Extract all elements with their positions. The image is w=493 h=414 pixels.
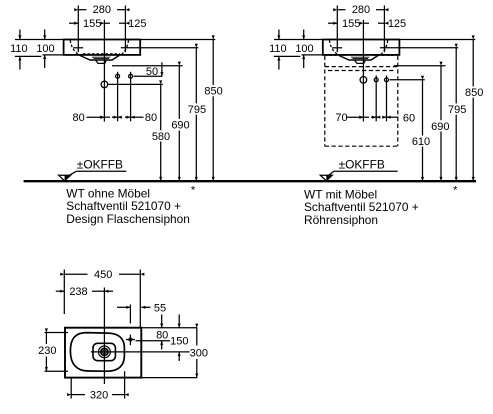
drain hole circle right	[360, 77, 367, 84]
svg-text:238: 238	[69, 286, 87, 298]
drain hole circle left	[101, 81, 108, 88]
svg-text:60: 60	[403, 113, 415, 125]
rim bottom reference line right	[394, 65, 446, 67]
dim 690 line right	[440, 66, 442, 121]
plan drain inner circle	[101, 348, 108, 355]
svg-text:280: 280	[93, 4, 111, 16]
dim 580 line	[160, 84, 162, 130]
svg-text:110: 110	[269, 43, 287, 55]
svg-text:610: 610	[412, 136, 430, 148]
100 bottom tick	[44, 55, 46, 68]
tap hole cross right arm + 795 reference line	[121, 47, 199, 49]
hole axes right	[376, 76, 386, 122]
100 top tick	[44, 30, 46, 40]
dim 690 line	[178, 66, 180, 119]
dim 850 line right	[472, 40, 474, 87]
plan top edge extension	[141, 327, 197, 329]
level symbol left: underline	[76, 170, 126, 172]
svg-text:230: 230	[38, 345, 56, 357]
svg-text:Schaftventil 521070 +: Schaftventil 521070 +	[304, 200, 419, 214]
level triangle left filled half	[65, 175, 71, 181]
bowl hidden arc left-left	[70, 40, 80, 55]
svg-text:155: 155	[83, 18, 101, 30]
450 left tick	[63, 270, 65, 315]
plan bowl outline	[70, 333, 124, 372]
dim 230 bottom extension	[45, 370, 69, 372]
svg-text:850: 850	[465, 87, 483, 99]
dim 55 arrows	[117, 306, 130, 308]
overflow hole 1 left	[116, 74, 120, 78]
dim 320	[71, 394, 85, 396]
svg-text:80: 80	[72, 112, 84, 124]
plan dim texts	[38, 269, 208, 401]
siphon hole 1 right	[374, 78, 378, 82]
hole 1 axis	[117, 72, 119, 122]
110/100 top reference line right	[274, 39, 323, 41]
svg-text:110: 110	[10, 43, 28, 55]
rim bottom reference line	[112, 65, 183, 67]
svg-text:125: 125	[128, 18, 146, 30]
extension line x=78.3	[77, 6, 79, 53]
overflow hole 2 left	[129, 74, 133, 78]
dim 300 plan	[196, 328, 198, 346]
svg-text:320: 320	[90, 389, 108, 401]
320 left tick	[70, 378, 72, 399]
svg-text:450: 450	[94, 269, 112, 281]
svg-text:Röhrensiphon: Röhrensiphon	[304, 213, 378, 227]
dim 280 left	[78, 9, 86, 11]
dim 280 right	[337, 9, 345, 11]
plan basin rectangle	[65, 328, 141, 378]
100 top tick right	[303, 30, 305, 40]
svg-text:155: 155	[342, 18, 360, 30]
dim 50 tick	[161, 62, 163, 76]
svg-text:280: 280	[352, 4, 370, 16]
110 top tick right	[278, 30, 280, 40]
level symbol left: diagonal	[67, 171, 76, 177]
110 bottom reference line	[15, 55, 42, 57]
drain reference line	[108, 83, 163, 85]
holes reference line	[134, 75, 163, 77]
plan tap cross circle	[129, 338, 132, 341]
dim 125 arrows	[104, 22, 110, 24]
level symbol right: triangle	[320, 175, 332, 181]
drain recess lines left	[92, 57, 111, 58]
svg-text:Design Flaschensiphon: Design Flaschensiphon	[66, 212, 190, 226]
svg-text:*: *	[191, 185, 196, 197]
svg-text:690: 690	[171, 120, 189, 132]
dim 80-80 line	[87, 116, 105, 118]
100 bottom tick right	[303, 55, 305, 68]
svg-text:300: 300	[190, 347, 208, 359]
450 right tick	[139, 270, 141, 328]
extension line x=337.3	[336, 6, 338, 53]
basin top reference line right	[399, 39, 475, 41]
hidden bottom edge dashes	[325, 54, 396, 56]
dim 230 top extension	[45, 332, 69, 334]
plan tap cross vertical	[129, 335, 131, 346]
svg-text:150: 150	[170, 336, 188, 348]
extension line x=384.4	[383, 6, 385, 53]
svg-text:125: 125	[388, 18, 406, 30]
plan drain recess	[93, 343, 115, 360]
hole 2 axis	[130, 72, 132, 122]
svg-text:70: 70	[335, 112, 347, 124]
plan bottom edge extension	[141, 377, 197, 379]
svg-text:*: *	[453, 185, 458, 197]
110 bottom tick right	[278, 56, 280, 69]
basin outline left	[64, 40, 141, 55]
svg-text:55: 55	[154, 303, 166, 315]
basin top reference line	[140, 39, 215, 41]
drain boss right	[355, 60, 366, 63]
100 bottom reference line	[43, 54, 64, 56]
bowl underside trapezoid left	[80, 55, 120, 60]
110 top tick	[19, 30, 21, 40]
100 bottom reference line right	[302, 54, 323, 56]
level symbol left: triangle	[59, 175, 71, 181]
dim 150 plan arrows	[178, 315, 180, 328]
svg-text:850: 850	[204, 86, 222, 98]
plan cross level extension	[136, 340, 171, 342]
plan drain outer circle	[99, 346, 111, 358]
dim 70-60 line	[346, 116, 363, 118]
svg-text:50: 50	[146, 66, 158, 78]
floor line	[24, 180, 476, 182]
svg-text:Schaftventil 521070 +: Schaftventil 521070 +	[66, 199, 181, 213]
dim 155 outside arrow right	[328, 22, 337, 24]
svg-text:795: 795	[448, 104, 466, 116]
dim 155 outside arrow	[69, 22, 78, 24]
basin outline right	[323, 40, 400, 55]
drain boss left	[96, 60, 107, 63]
svg-text:690: 690	[431, 121, 449, 133]
bowl underside trapezoid right	[339, 55, 379, 60]
svg-text:100: 100	[36, 43, 54, 55]
dim 80 plan arrows	[161, 315, 163, 328]
plan tap cross horizontal	[126, 339, 135, 341]
dim 238 outside arrows	[56, 290, 65, 292]
centre line left	[103, 20, 105, 122]
plan vertical centre line	[103, 288, 105, 385]
level triangle right filled half	[326, 175, 332, 181]
drain recess lines right	[351, 57, 370, 58]
110 bottom tick	[19, 56, 21, 69]
dim 125 arrows right	[363, 22, 369, 24]
svg-text:795: 795	[188, 104, 206, 116]
plan tap cross extension tick	[129, 305, 131, 324]
svg-text:80: 80	[145, 112, 157, 124]
110 bottom reference line right	[274, 55, 301, 57]
320 right tick	[124, 371, 126, 398]
svg-text:±OKFFB: ±OKFFB	[77, 157, 123, 171]
dim 795 line	[195, 48, 197, 104]
110/100 top reference line	[15, 39, 64, 41]
dim 450	[64, 273, 87, 275]
level symbol right: underline	[334, 170, 398, 172]
centre line right	[362, 20, 364, 122]
svg-text:580: 580	[152, 131, 170, 143]
dim texts left drawing	[10, 4, 223, 143]
bowl hidden bottom line left	[83, 53, 120, 55]
dim 795 line right	[455, 48, 457, 104]
furniture cabinet dashed box	[325, 56, 398, 146]
dim 850 line	[212, 40, 214, 86]
tap hole cross left	[73, 47, 83, 49]
svg-text:80: 80	[156, 329, 168, 341]
level symbol right: diagonal	[327, 171, 334, 177]
siphon hole 2 right	[385, 78, 389, 82]
bowl hidden arc right-right	[380, 40, 388, 55]
bowl hidden arc right-left	[329, 40, 339, 55]
plan drain centre dot circle	[103, 350, 107, 354]
svg-text:±OKFFB: ±OKFFB	[339, 157, 385, 171]
tap hole cross right arm + 795 reference line (right view)	[380, 47, 458, 49]
extension line x=125.4	[124, 6, 126, 53]
dim 610 line	[422, 80, 424, 136]
tap hole cross left (right view)	[332, 47, 342, 49]
holes reference line right	[390, 79, 425, 81]
dim 230 line	[45, 333, 47, 345]
plan horizontal centre line	[91, 351, 190, 353]
svg-text:100: 100	[295, 43, 313, 55]
bowl hidden arc left-right	[121, 40, 129, 55]
dim texts right drawing	[269, 4, 483, 148]
